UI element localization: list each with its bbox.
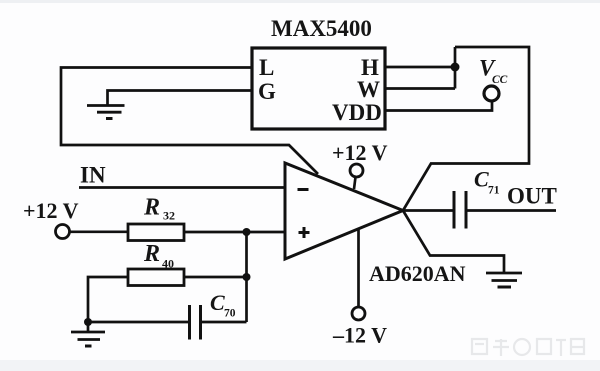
capacitor C70: [190, 305, 201, 340]
node junction dot C: [84, 318, 92, 326]
chip U1 MAX5400 box: [252, 48, 385, 129]
capacitor C71: [454, 191, 466, 229]
svg-text:+12 V: +12 V: [332, 140, 388, 165]
wire +12V to R32: [70, 230, 129, 233]
svg-text:MAX5400: MAX5400: [271, 16, 372, 41]
ground G2: [71, 322, 105, 346]
node H-W junction dot: [451, 63, 460, 72]
wire -12V stub: [357, 229, 360, 307]
svg-text:70: 70: [224, 308, 236, 320]
resistor R40: [128, 269, 184, 286]
wire R32 to plus input: [184, 231, 285, 234]
terminal -12V circle: [352, 307, 365, 320]
svg-text:L: L: [259, 55, 274, 80]
wire C70 right: [201, 321, 247, 324]
wire H-W junction vertical: [454, 47, 457, 89]
wire feedback top: [403, 47, 529, 211]
svg-text:G: G: [258, 79, 276, 104]
wire output to C71: [403, 209, 454, 212]
svg-text:32: 32: [163, 209, 175, 223]
svg-text:+12 V: +12 V: [23, 198, 79, 223]
svg-text:C: C: [210, 290, 225, 315]
ground G3: [486, 273, 522, 287]
svg-text:IN: IN: [80, 163, 106, 188]
svg-text:OUT: OUT: [507, 184, 557, 209]
svg-text:R: R: [143, 241, 160, 267]
node junction dot A: [243, 228, 251, 236]
svg-text:CC: CC: [492, 74, 508, 86]
svg-text:VDD: VDD: [332, 100, 382, 125]
wire W: [385, 87, 455, 90]
op-amp minus input mark: [298, 188, 309, 191]
op-amp U2 triangle: [285, 163, 403, 259]
wire +12V stub: [354, 177, 356, 189]
wire L loop to op-amp RG: [61, 68, 318, 175]
wire R40 left to ground rail: [88, 277, 128, 322]
svg-text:R: R: [143, 195, 160, 221]
wire G to ground: [108, 91, 253, 106]
op-amp plus input mark: [299, 227, 310, 238]
svg-text:W: W: [357, 77, 380, 102]
ground G1: [87, 106, 125, 119]
wire REF to ground: [403, 211, 504, 273]
node junction dot B: [243, 273, 251, 281]
terminal +12V supply circle: [350, 164, 363, 177]
terminal +12V circle: [56, 225, 70, 239]
svg-text:C: C: [474, 167, 489, 192]
svg-text:71: 71: [488, 185, 500, 197]
resistor R32: [128, 224, 184, 241]
wire C71 to OUT: [466, 209, 556, 212]
terminal Vcc circle: [484, 86, 499, 101]
wire bottom rail to C70: [88, 321, 190, 324]
wire H: [385, 66, 455, 69]
svg-text:40: 40: [162, 257, 174, 271]
watermark zhihu: [472, 339, 584, 356]
wire R40 right: [184, 276, 247, 279]
wire vertical bus x246: [245, 232, 248, 322]
wire IN to minus input: [79, 186, 285, 189]
wire VDD to Vcc: [385, 101, 492, 110]
svg-text:AD620AN: AD620AN: [369, 261, 466, 286]
svg-text:–12 V: –12 V: [332, 323, 387, 348]
